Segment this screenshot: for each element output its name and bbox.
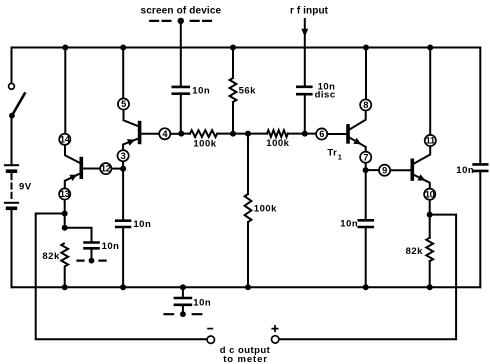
svg-text:r f input: r f input xyxy=(290,6,329,17)
svg-text:1: 1 xyxy=(338,152,343,161)
svg-text:10: 10 xyxy=(425,189,435,199)
svg-text:12: 12 xyxy=(101,164,111,174)
svg-text:56k: 56k xyxy=(239,86,257,97)
svg-text:9V: 9V xyxy=(19,181,32,192)
svg-text:to meter: to meter xyxy=(223,354,268,364)
svg-text:disc: disc xyxy=(315,90,336,101)
svg-text:screen of device: screen of device xyxy=(141,5,222,16)
svg-text:10n: 10n xyxy=(133,219,151,230)
svg-text:10n: 10n xyxy=(193,297,211,308)
svg-text:5: 5 xyxy=(121,99,126,109)
svg-text:10n: 10n xyxy=(456,165,474,176)
svg-text:3: 3 xyxy=(121,151,126,161)
svg-text:10n: 10n xyxy=(102,241,120,252)
svg-text:7: 7 xyxy=(363,152,368,162)
svg-text:10n: 10n xyxy=(192,86,210,97)
svg-text:8: 8 xyxy=(363,100,368,110)
svg-text:100k: 100k xyxy=(254,204,277,215)
svg-text:Tr: Tr xyxy=(327,148,337,159)
svg-text:10n: 10n xyxy=(340,219,358,230)
svg-text:6: 6 xyxy=(319,129,324,139)
svg-text:9: 9 xyxy=(382,165,387,175)
svg-text:100k: 100k xyxy=(193,138,216,149)
svg-text:13: 13 xyxy=(60,189,70,199)
svg-text:82k: 82k xyxy=(42,251,60,262)
svg-text:82k: 82k xyxy=(406,246,424,257)
svg-text:100k: 100k xyxy=(266,138,289,149)
svg-text:14: 14 xyxy=(60,134,71,144)
svg-text:11: 11 xyxy=(426,136,435,146)
